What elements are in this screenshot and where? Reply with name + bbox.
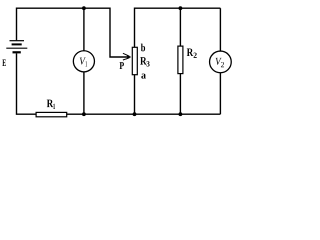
svg-text:b: b <box>141 42 146 54</box>
svg-text:1: 1 <box>85 60 87 69</box>
svg-text:E: E <box>2 58 6 69</box>
svg-text:1: 1 <box>53 102 55 111</box>
svg-text:2: 2 <box>193 51 197 60</box>
svg-text:P: P <box>119 61 124 72</box>
svg-text:3: 3 <box>146 59 150 68</box>
svg-text:2: 2 <box>221 60 225 69</box>
svg-text:a: a <box>141 71 147 82</box>
